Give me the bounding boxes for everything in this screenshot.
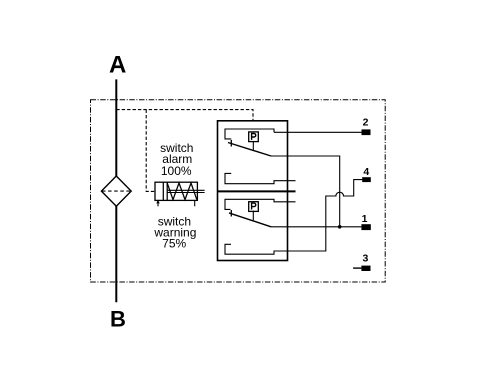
terminal 4: [362, 177, 371, 182]
actuator body (cylinder): [155, 182, 197, 200]
terminal 2: [362, 129, 371, 135]
enclosure boundary (dash-dot): [91, 100, 386, 282]
terminal 3: [361, 266, 370, 271]
junction node: [338, 225, 342, 229]
terminal 1: [361, 224, 370, 230]
svg-text:75%: 75%: [162, 236, 186, 250]
svg-text:B: B: [110, 307, 126, 332]
filter F1 (diamond): [101, 176, 131, 206]
switch S1 contact arm: [228, 143, 271, 157]
svg-text:A: A: [109, 52, 126, 79]
switch S1 common rail: [225, 129, 274, 139]
wire from S2 arm to terminal 1: [271, 226, 361, 228]
wire to terminal 2: [274, 131, 362, 133]
svg-text:4: 4: [363, 166, 369, 178]
svg-text:1: 1: [362, 213, 368, 225]
pilot line (dashed) from line A to switch S1: [116, 110, 253, 121]
actuator pin (right): [194, 200, 196, 206]
terminal 3 stub wire: [353, 267, 361, 269]
divider between switch S1 and S2 (with stub): [218, 190, 296, 192]
svg-text:100%: 100%: [161, 164, 192, 178]
switch S1 pressure actuator P: [249, 132, 259, 142]
svg-text:2: 2: [363, 117, 369, 129]
switch S1 lower bracket with stub: [225, 173, 296, 183]
svg-text:3: 3: [362, 253, 368, 265]
pressure switch enclosure (outer box): [218, 121, 288, 261]
wire: filter to line B: [115, 206, 117, 302]
switch S2 lower bracket and wire to terminal 4 (with hop over junction wire): [225, 180, 362, 255]
switch S2 contact arm: [229, 213, 271, 227]
actuator rod: [167, 189, 204, 191]
switch S2 contact tick: [230, 210, 232, 217]
actuator pin with arrow (left): [157, 203, 159, 207]
switch S1 contact tick: [230, 140, 232, 147]
pilot line branch (dashed) to spring actuator: [146, 110, 155, 192]
actuator piston: [162, 182, 164, 200]
wire from S1 arm to junction on terminal 1 line: [271, 156, 340, 227]
switch S2 common rail with stub: [225, 199, 296, 209]
switch S2 pressure actuator P: [249, 202, 259, 212]
wire: line A to filter: [115, 79, 117, 176]
filter element (dashed diagonal): [102, 190, 131, 192]
actuator spring: [167, 183, 197, 200]
